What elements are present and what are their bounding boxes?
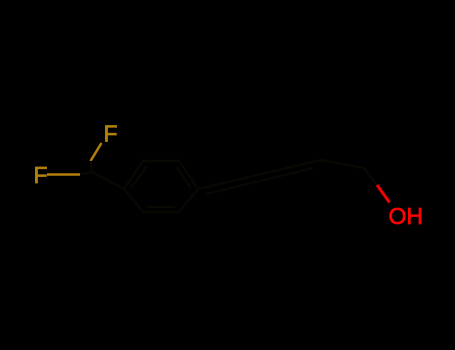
linker double bond companion (dark skeleton) [206,168,313,194]
svg-text:OH: OH [389,203,424,229]
chain bond to apex carbon (dark skeleton) [321,160,364,168]
ring double bond 1 (inner, top-left edge) [131,166,147,188]
ring double bond 3 (inner, bottom edge) [147,206,175,208]
bond C1-F top (goldenrod half) [91,143,102,161]
bond C1 to ring (dark skeleton) [92,172,124,189]
benzene ring (dark skeleton) [124,161,198,212]
linker bond ring to chain (dark skeleton) [198,160,321,189]
bond C1-F left (carbon half, dark) [80,172,92,175]
svg-text:F: F [104,121,118,147]
bond apex C-O (oxygen half, red) [377,185,390,203]
bond C1-F top (carbon half, dark) [91,161,93,172]
ring double bond 2 (inner, right edge) [176,166,191,188]
svg-text:F: F [34,162,48,188]
bond C1-F left (goldenrod half) [47,173,80,176]
bond apex C-O (carbon half, dark) [364,168,377,185]
